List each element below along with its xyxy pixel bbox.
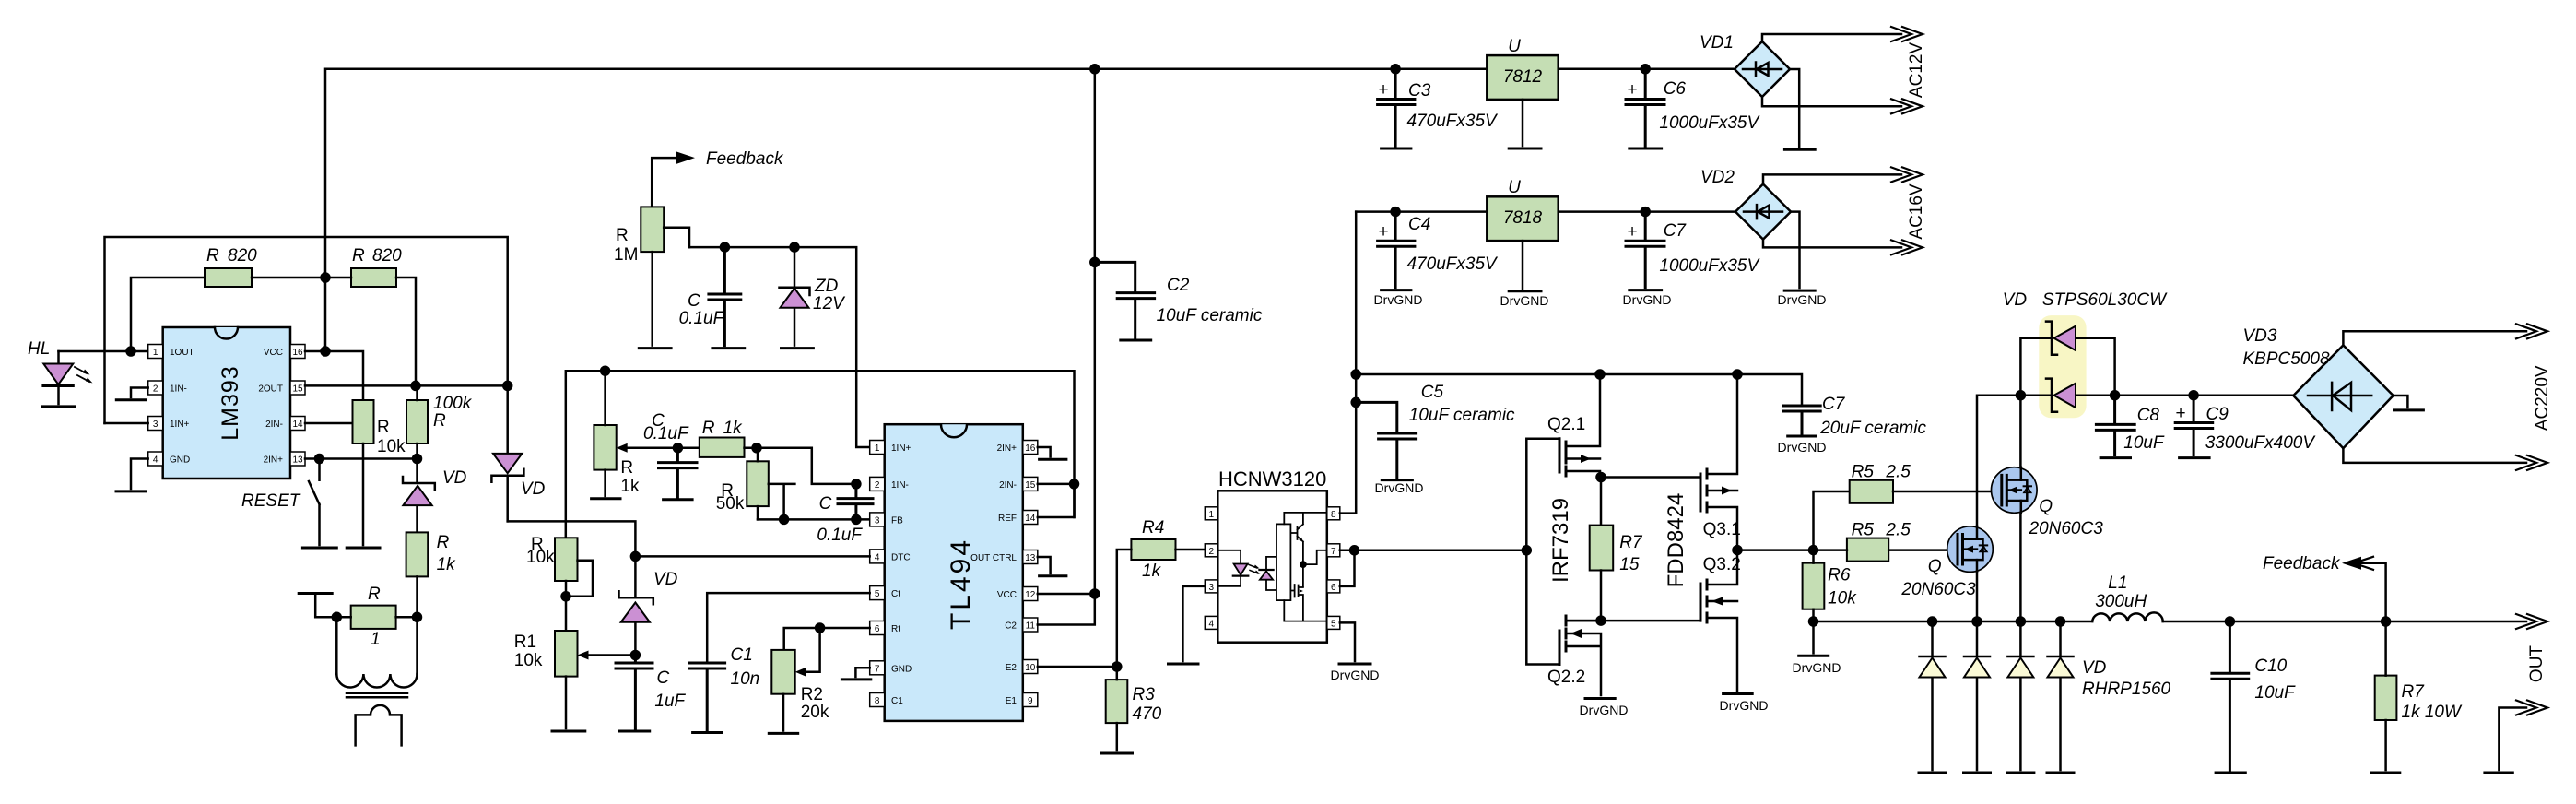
LM393 pin 14 (2IN-) (265, 417, 305, 431)
wire: VD2 top output arrow (AC16V) (1763, 167, 1923, 183)
resistor R5 2.5 (lower gate) (1814, 520, 1950, 561)
IC HCNW3120 optocoupler body (1217, 467, 1327, 643)
wire: Ct (pin 5) to C1 (707, 593, 870, 663)
ground bar under R2 (769, 732, 797, 735)
capacitor C 0.1uF (1IN- to FB) (817, 484, 873, 545)
diode VD RHRP1560 #3 (2007, 621, 2034, 773)
capacitor C4 470uFx35V (1378, 212, 1415, 288)
svg-text:1IN-: 1IN- (891, 480, 909, 491)
svg-text:2.5: 2.5 (1885, 463, 1911, 482)
resistor R6 10k (1803, 550, 1858, 621)
svg-text:RHRP1560: RHRP1560 (2082, 680, 2171, 699)
ground lead + DrvGND bar of 7818 (1500, 241, 1549, 308)
HCNW3120 internal LED between pins 2-3 (1217, 550, 1248, 586)
wire: LM393 pin1 to HL node (59, 348, 148, 356)
inductor L1 300uH (2092, 573, 2163, 621)
svg-text:C6: C6 (1664, 79, 1687, 99)
svg-text:C2: C2 (1167, 276, 1190, 295)
svg-text:VCC: VCC (264, 348, 283, 358)
svg-text:820: 820 (228, 246, 257, 266)
wire: FB row to TL494 pin3 (758, 479, 870, 524)
LM393 pin 2 (1IN-) (148, 381, 187, 395)
zener diode ZD 12V (780, 247, 847, 346)
svg-text:470: 470 (1133, 704, 1162, 724)
svg-text:0.1uF: 0.1uF (817, 526, 863, 545)
svg-text:15: 15 (292, 384, 303, 395)
TL494 pin 6 (Rt) (870, 621, 901, 635)
wire: 7812 output to VD1 bridge (1559, 65, 1735, 73)
wire: HCNW3120 pins 7-6 tied (gate drive output) (1340, 546, 1359, 586)
diode VD RHRP1560 #4 (2047, 621, 2074, 773)
wire: LM393 pin 13 (2IN+) row (305, 455, 421, 463)
ground bar under C 1uF (619, 730, 650, 733)
svg-text:20N60C3: 20N60C3 (1900, 580, 1976, 599)
svg-text:C8: C8 (2137, 406, 2160, 425)
wire+ground: LM393 pin 4 (116, 459, 148, 491)
potentiometer R 1k (DTC adjust) (594, 371, 640, 496)
ground bar under C 0.1uF soft start (664, 498, 693, 501)
label AC16V (rotated) (1907, 183, 1926, 240)
wire+ground: HCNW3120 pin 3 (1169, 586, 1206, 664)
diode VD RHRP1560 #1 (1919, 621, 1946, 773)
svg-text:R: R (437, 533, 450, 552)
svg-text:820: 820 (372, 246, 402, 266)
label OUT (rotated) (2527, 645, 2547, 683)
wire: VD1 bottom output arrow (1762, 97, 1923, 113)
bridge rectifier VD2 (1735, 184, 1791, 240)
ground bar under C2 (1121, 339, 1151, 342)
svg-text:U: U (1508, 178, 1521, 197)
label AC220V (rotated) (2533, 365, 2552, 431)
TL494 pin 5 (Ct) (870, 586, 901, 600)
svg-text:2IN+: 2IN+ (264, 455, 284, 466)
wire: Feedback arrow (output sense) (2263, 554, 2386, 621)
wire: 7818 input rail from riser to regulator (1356, 207, 1487, 216)
svg-text:L1: L1 (2108, 573, 2127, 593)
label HL (28, 339, 50, 359)
diode VD RHRP1560 #2 (1964, 621, 1991, 773)
svg-text:DrvGND: DrvGND (1374, 292, 1423, 307)
wire: LM393 pin 16 (VCC) to R10k column (305, 351, 363, 400)
HCNW3120 internal output stage (1284, 513, 1327, 621)
svg-text:R: R (206, 246, 219, 266)
ground bar under R 1M (639, 347, 671, 349)
wire: HCNW3120 pin 8 riser to driver supply rail (1340, 212, 1360, 514)
capacitor C7 20uF ceramic (1783, 395, 1927, 438)
svg-text:10uF ceramic: 10uF ceramic (1409, 406, 1515, 425)
svg-text:R7: R7 (2402, 682, 2426, 702)
svg-text:C7: C7 (1664, 221, 1688, 241)
wire: TL494 pin 14 (REF) (1038, 484, 1075, 517)
HCNW3120 pin 3 (1205, 580, 1217, 593)
svg-text:5: 5 (1331, 620, 1336, 630)
zener diode VD (below R100k, cathode up) (403, 459, 467, 533)
svg-text:R6: R6 (1828, 566, 1851, 585)
TL494 pin 2 (1IN-) (870, 477, 909, 491)
wire: VD2 right vertex to DrvGND (1778, 212, 1827, 307)
TL494 pin 16 (2IN+) (997, 441, 1038, 455)
TL494 pin 11 (C2) (1005, 618, 1038, 632)
HCNW3120 internal light arrows (1249, 565, 1261, 574)
svg-text:2OUT: 2OUT (258, 384, 283, 395)
svg-text:DTC: DTC (891, 552, 911, 562)
svg-text:Rt: Rt (891, 624, 900, 634)
svg-text:2IN-: 2IN- (265, 420, 283, 430)
svg-text:R: R (620, 458, 633, 478)
wire: wiper line from R1k pot to R1k resistor (617, 443, 700, 453)
LM393 pin 1 (1OUT) (148, 345, 194, 359)
svg-text:20uF ceramic: 20uF ceramic (1819, 419, 1926, 438)
svg-text:VD: VD (653, 570, 678, 589)
wire+ground: VD3 right vertex (2394, 396, 2424, 410)
svg-text:1k 10W: 1k 10W (2402, 703, 2463, 722)
wire+ground: TL494 pin 13 (OUT CTRL) (1038, 557, 1066, 576)
dual schottky diode VD STPS60L30CW (2003, 290, 2168, 418)
capacitor C2 10uF ceramic (1095, 262, 1263, 337)
resistor R 100k (406, 385, 473, 458)
wire: Q sources to output bus (1977, 513, 2020, 621)
wire: Q upper drain riser (2017, 391, 2025, 467)
svg-text:OUT CTRL: OUT CTRL (970, 553, 1017, 563)
wire: output bus (DrvGND side) with junctions (1809, 618, 2092, 626)
wire: output line after L1 with OUT arrow (2163, 614, 2547, 629)
svg-text:C: C (657, 668, 670, 688)
svg-text:1000uFx35V: 1000uFx35V (1659, 256, 1760, 276)
svg-text:R4: R4 (1142, 518, 1164, 538)
svg-text:VD: VD (2003, 290, 2028, 310)
svg-text:KBPC5008: KBPC5008 (2243, 349, 2330, 369)
ground lead + bar of 7812 (1509, 100, 1541, 148)
svg-text:Q3.1: Q3.1 (1703, 520, 1741, 539)
wire: TL494 pin 15 (2IN-) to REF riser (1038, 479, 1078, 488)
wire: VD1 right vertex to ground (1784, 69, 1815, 149)
DrvGND under C7 ceramic (1778, 436, 1827, 455)
junction dots on top bus (322, 65, 1400, 355)
svg-text:8: 8 (875, 696, 880, 706)
resistor R 1k (below zener) (406, 532, 457, 617)
wire: LM393 pin 3 from loop (105, 422, 148, 425)
wire: output return arrow (2499, 701, 2547, 771)
svg-text:C: C (688, 291, 700, 311)
svg-text:7: 7 (875, 664, 880, 674)
chassis bar left of R 1 (299, 594, 336, 618)
svg-text:Q2.2: Q2.2 (1547, 668, 1585, 687)
capacitor C10 10uF (2212, 621, 2296, 770)
svg-text:15: 15 (1025, 480, 1036, 491)
svg-text:TL494: TL494 (946, 538, 976, 630)
wire: Q lower drain riser to snubber rail (1977, 396, 2020, 526)
svg-text:1: 1 (1209, 510, 1215, 520)
svg-text:3300uFx400V: 3300uFx400V (2205, 433, 2317, 453)
svg-text:VD3: VD3 (2243, 326, 2277, 346)
svg-text:R: R (702, 419, 715, 438)
svg-text:HCNW3120: HCNW3120 (1218, 467, 1326, 491)
DrvGND under C7 (1623, 290, 1672, 307)
svg-text:DrvGND: DrvGND (1623, 292, 1672, 307)
resistor R 1k (to TL494 1IN-) (700, 419, 856, 484)
svg-text:6: 6 (1331, 583, 1336, 593)
TL494 pin 1 (1IN+) (870, 441, 912, 455)
svg-text:3: 3 (1209, 583, 1215, 593)
resistor R 10k (hysteresis) (353, 400, 406, 545)
svg-text:AC12V: AC12V (1907, 42, 1926, 99)
svg-text:U: U (1508, 37, 1521, 56)
svg-text:STPS60L30CW: STPS60L30CW (2042, 290, 2168, 310)
svg-text:1: 1 (875, 443, 880, 454)
ground bar under R 1k pot (592, 497, 620, 500)
resistor R4 1k (1117, 518, 1206, 667)
transformer core lines (347, 693, 407, 697)
DrvGND under C5 (1375, 480, 1424, 495)
label C6 (1659, 79, 1760, 133)
wire: loop from 1IN+ to 2OUT column (y=257) (105, 237, 508, 423)
wire: DTC row (pin 4) (635, 555, 869, 558)
svg-text:AC16V: AC16V (1907, 183, 1926, 240)
svg-text:470uFx35V: 470uFx35V (1407, 254, 1500, 274)
svg-text:DrvGND: DrvGND (1331, 668, 1380, 682)
HCNW3120 pin 5 (1327, 616, 1340, 629)
DrvGND under Q3.2 (1720, 694, 1769, 714)
svg-text:DrvGND: DrvGND (1500, 293, 1549, 308)
DrvGND under C4 (1374, 290, 1423, 307)
resistor R 1 (current sense) (333, 585, 421, 649)
svg-text:13: 13 (292, 455, 303, 466)
switch RESET (241, 459, 320, 546)
svg-text:Ct: Ct (891, 589, 900, 599)
svg-text:DrvGND: DrvGND (1580, 703, 1629, 717)
resistor R 820 (left) (131, 246, 325, 351)
svg-text:E1: E1 (1006, 696, 1017, 706)
svg-text:1IN+: 1IN+ (891, 443, 912, 454)
wire: TL494 pin 12 (VCC) riser from top bus (1038, 69, 1100, 598)
zener diode VD (on 2OUT column, cathode down) (491, 385, 545, 521)
ground bar under R7 (2371, 772, 2400, 774)
HCNW3120 internal driver block (1276, 524, 1290, 600)
wire: 7818 output to VD2 bridge (1559, 207, 1735, 216)
svg-text:2: 2 (875, 480, 880, 491)
svg-text:GND: GND (170, 455, 190, 466)
LM393 pin 3 (1IN+) (148, 417, 190, 431)
capacitor C9 3300uFx400V (2175, 396, 2316, 455)
svg-text:DrvGND: DrvGND (1778, 440, 1827, 455)
svg-text:3: 3 (875, 515, 880, 526)
capacitor C7 1000uFx35V (1626, 212, 1664, 288)
svg-text:Feedback: Feedback (2263, 554, 2341, 573)
capacitor C 0.1uF (soft start) (643, 411, 697, 497)
resistor R3 470 (1106, 667, 1162, 751)
HCNW3120 pin 2 (1205, 544, 1217, 557)
svg-text:C7: C7 (1822, 395, 1846, 414)
voltage regulator U 7818 (1487, 178, 1558, 241)
svg-text:Q: Q (1928, 557, 1942, 576)
wire: half-bridge output node (1734, 546, 1818, 554)
svg-text:C1: C1 (891, 696, 903, 706)
wire: Q2 source/drain node to Q3.1 gate (upper drive) (1597, 473, 1701, 481)
svg-text:+: + (1378, 80, 1388, 100)
svg-text:470uFx35V: 470uFx35V (1407, 112, 1500, 131)
HCNW3120 internal photodiode (1259, 557, 1276, 590)
TL494 pin 10 (E2) (1006, 660, 1038, 674)
LM393 pin 15 (2OUT) (258, 381, 305, 395)
HCNW3120 pin 4 (1205, 616, 1217, 629)
current transformer primary winding (336, 617, 417, 687)
svg-text:3: 3 (153, 420, 159, 430)
svg-text:9: 9 (1028, 696, 1033, 706)
svg-text:AC220V: AC220V (2533, 365, 2552, 431)
wire: TL494 pin 11 (C2) tied to VCC (1038, 594, 1095, 625)
label C4 (1407, 215, 1500, 274)
ground bar under ZD (782, 347, 814, 349)
svg-text:FB: FB (891, 515, 903, 526)
bridge rectifier VD3 KBPC5008 (2243, 326, 2394, 448)
svg-text:1k: 1k (1142, 562, 1162, 581)
svg-text:C1: C1 (731, 645, 753, 665)
svg-text:LM393: LM393 (218, 365, 243, 440)
label FDD8424 (rotated) (1664, 493, 1688, 588)
svg-text:2IN+: 2IN+ (997, 443, 1017, 454)
IC LM393 body (163, 327, 290, 479)
wire: gate drive line to IRF7319 gates (1355, 546, 1531, 554)
label C3 (1407, 81, 1500, 131)
ground bar under C9 (2180, 456, 2210, 459)
transistor Q 20N60C3 (upper) (1992, 467, 2104, 538)
svg-text:1: 1 (153, 348, 159, 358)
svg-text:DrvGND: DrvGND (1778, 292, 1827, 307)
TL494 pin 9 (E1) (1006, 693, 1038, 707)
svg-text:+: + (1627, 80, 1637, 100)
svg-text:C10: C10 (2254, 656, 2287, 676)
svg-text:2: 2 (1209, 547, 1215, 557)
svg-text:DrvGND: DrvGND (1793, 660, 1841, 675)
potentiometer R 10k (REF divider upper) (526, 535, 593, 631)
wire: LM393 pin 14 (2IN-) stub (305, 422, 353, 425)
svg-text:R2: R2 (801, 685, 823, 704)
svg-text:10uF: 10uF (2123, 433, 2165, 453)
svg-text:50k: 50k (716, 494, 745, 514)
svg-text:4: 4 (875, 552, 880, 562)
DrvGND under Q2.2 (1580, 699, 1629, 718)
HCNW3120 pin 8 (1327, 507, 1340, 520)
svg-text:1IN+: 1IN+ (170, 420, 190, 430)
svg-text:11: 11 (1026, 621, 1036, 632)
svg-text:C9: C9 (2206, 405, 2229, 424)
svg-text:VD: VD (521, 479, 546, 499)
ground bar under C1 (693, 731, 722, 734)
HCNW3120 pin 7 (1327, 544, 1340, 557)
svg-text:16: 16 (1025, 443, 1036, 454)
wire: VD3 bottom output arrow (2343, 448, 2547, 470)
svg-text:10k: 10k (377, 437, 406, 456)
svg-text:Feedback: Feedback (706, 149, 784, 169)
capacitor C6 1000uFx35V (1626, 69, 1664, 146)
wire: main divider column riser (y=402 rail) (566, 367, 1075, 538)
ground bar under C10 (2216, 772, 2245, 774)
transistor Q2.1 (IRF7319 upper half) (1547, 374, 1600, 478)
svg-text:R: R (368, 585, 381, 604)
capacitor C3 470uFx35V (1378, 69, 1415, 146)
svg-text:10uF ceramic: 10uF ceramic (1157, 306, 1263, 325)
svg-text:2IN-: 2IN- (999, 480, 1017, 491)
svg-text:1: 1 (371, 630, 381, 649)
svg-text:20N60C3: 20N60C3 (2029, 519, 2104, 538)
wire: IRF7319 gate riser (1526, 439, 1559, 665)
HCNW3120 pin 1 (1205, 507, 1217, 520)
resistor R 820 (right) (325, 246, 416, 385)
label AC12V (rotated) (1907, 42, 1926, 99)
label VD2 (1700, 168, 1735, 187)
svg-text:OUT: OUT (2527, 645, 2547, 683)
wire: LM393 pin 15 (2OUT) row (305, 382, 512, 390)
svg-text:1uF: 1uF (654, 692, 686, 711)
svg-text:DrvGND: DrvGND (1720, 698, 1769, 713)
svg-text:6: 6 (875, 624, 880, 634)
svg-text:7812: 7812 (1503, 67, 1543, 87)
svg-text:VD: VD (2082, 658, 2107, 678)
resistor R7 1k 10W (2375, 621, 2463, 770)
wire: main VCC top bus from LM393 column to 7812 input (325, 69, 1487, 351)
wire: zener chain across to DTC column (508, 521, 636, 556)
transistor Q3.2 (FDD8424 lower half) (1700, 550, 1741, 692)
svg-text:1M: 1M (614, 245, 638, 265)
svg-text:ZD: ZD (814, 277, 839, 296)
resistor R7 15 (1590, 478, 1643, 621)
capacitor C5 10uF ceramic (1356, 383, 1515, 478)
current transformer secondary loop (356, 705, 402, 745)
svg-text:Q2.1: Q2.1 (1547, 415, 1585, 434)
svg-text:0.1uF: 0.1uF (679, 309, 725, 328)
TL494 pin 13 (OUT CTRL) (970, 550, 1038, 564)
svg-text:HL: HL (28, 339, 50, 359)
TL494 pin 14 (REF) (998, 511, 1038, 525)
label VD1 (1700, 33, 1734, 53)
svg-text:R: R (616, 226, 629, 245)
resistor R5 2.5 (upper gate) (1814, 463, 2002, 550)
svg-text:Q3.2: Q3.2 (1703, 555, 1741, 574)
svg-text:R: R (433, 411, 446, 431)
ground bar of output return (2485, 772, 2512, 774)
TL494 pin 3 (FB) (870, 513, 903, 526)
svg-text:IRF7319: IRF7319 (1548, 498, 1573, 583)
svg-text:10: 10 (1025, 663, 1036, 673)
svg-text:2.5: 2.5 (1885, 520, 1911, 539)
svg-text:15: 15 (1619, 555, 1640, 574)
wire: VD1 top output arrow (AC12V) (1762, 27, 1923, 41)
wire: rectified HV rail to VD3 (2115, 391, 2294, 399)
svg-text:1k: 1k (723, 419, 744, 438)
svg-text:FDD8424: FDD8424 (1664, 493, 1688, 588)
svg-text:C5: C5 (1421, 383, 1444, 402)
svg-text:R5: R5 (1852, 520, 1875, 539)
svg-text:7818: 7818 (1503, 208, 1543, 228)
bridge rectifier VD1 (1735, 41, 1790, 97)
ground bar under R3 (1101, 752, 1133, 755)
svg-text:10k: 10k (1828, 589, 1857, 609)
svg-text:VD2: VD2 (1700, 168, 1735, 187)
svg-text:+: + (1627, 222, 1637, 242)
TL494 pin 8 (C1) (870, 693, 904, 707)
wire+ground: LM393 pin 2 (116, 388, 147, 400)
transistor Q3.1 (FDD8424 upper half) (1700, 374, 1741, 550)
svg-text:VCC: VCC (997, 590, 1017, 600)
TL494 pin 7 (GND) (870, 661, 912, 675)
wire: Feedback arrow (top) (652, 149, 784, 207)
wire: Q2 node to Q3.2 gate (lower drive) (1566, 617, 1700, 625)
potentiometer R 50k (716, 448, 795, 524)
svg-text:0.1uF: 0.1uF (643, 424, 689, 443)
svg-text:Q: Q (2039, 497, 2053, 516)
transistor Q2.2 (IRF7319 lower half) (1547, 616, 1601, 695)
svg-text:GND: GND (891, 664, 912, 674)
